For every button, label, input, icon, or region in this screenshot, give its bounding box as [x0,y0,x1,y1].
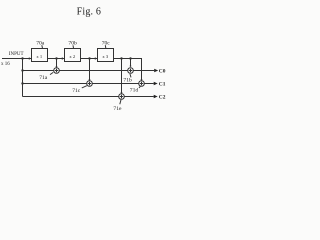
wire drop to 71c [89,59,91,80]
arrowhead into 71c [88,79,90,81]
arrowhead output C1 [154,82,158,86]
adder 71c [87,81,93,87]
arrowhead into 70c [95,57,98,59]
wire line3 [23,83,154,85]
svg-text:x 2: x 2 [69,54,75,59]
svg-text:71d: 71d [130,87,139,93]
adder 71d [139,81,145,87]
node junction line2 [21,69,23,71]
svg-text:x 16: x 16 [1,62,10,67]
node tap to 71b [129,57,131,59]
wire after 70c [114,59,142,81]
node tap after 70b [88,57,90,59]
arrowhead into 71e [120,92,122,94]
block 70a [32,49,48,62]
svg-text:x 1: x 1 [36,54,42,59]
arrowhead output C2 [154,95,158,99]
block 70c [98,49,114,62]
leader 70b [72,45,75,48]
svg-text:Fig. 6: Fig. 6 [77,6,102,17]
leader 71a [50,72,53,74]
wire input horizontal [2,58,32,60]
svg-text:C0: C0 [159,68,166,74]
svg-text:70a: 70a [36,40,45,46]
svg-text:71e: 71e [113,106,122,112]
arrowhead into 71d [140,79,142,81]
arrowhead into 71a [55,66,57,68]
arrowhead into 70b [62,57,65,59]
leader 70a [41,45,44,49]
node tap to 71e [120,57,122,59]
wire line2 [23,70,155,72]
node junction line3 [21,82,23,84]
node input tap junction [21,57,23,59]
wire drop to 71b [130,59,132,67]
svg-text:INPUT: INPUT [9,52,24,57]
wire line4 bottom [23,96,154,98]
wire between 70a and 70b [48,58,65,60]
arrowhead output C0 [154,69,158,73]
adder 71b [128,68,134,74]
svg-text:70c: 70c [102,40,111,46]
leader 71e [120,100,121,105]
leader 71b [130,74,131,77]
arrowhead into 71b [129,66,131,68]
leader 70c [104,45,107,49]
leader 71c [82,86,87,88]
adder 71e [119,94,125,100]
wire left bus vertical [22,59,24,97]
node tap after 70a [55,57,57,59]
svg-text:71c: 71c [72,88,81,94]
svg-text:C2: C2 [159,94,166,100]
block 70b [65,49,81,62]
adder 71a [54,68,60,74]
wire drop to 71e [121,59,123,93]
svg-text:71b: 71b [123,77,132,83]
wire between 70b and 70c [81,58,98,60]
svg-text:C1: C1 [159,81,166,87]
svg-text:x 3: x 3 [102,54,108,59]
leader 71d [139,86,140,88]
svg-text:71a: 71a [39,75,48,81]
wire drop to 71a [56,59,58,67]
arrowhead into 70a [29,57,32,59]
